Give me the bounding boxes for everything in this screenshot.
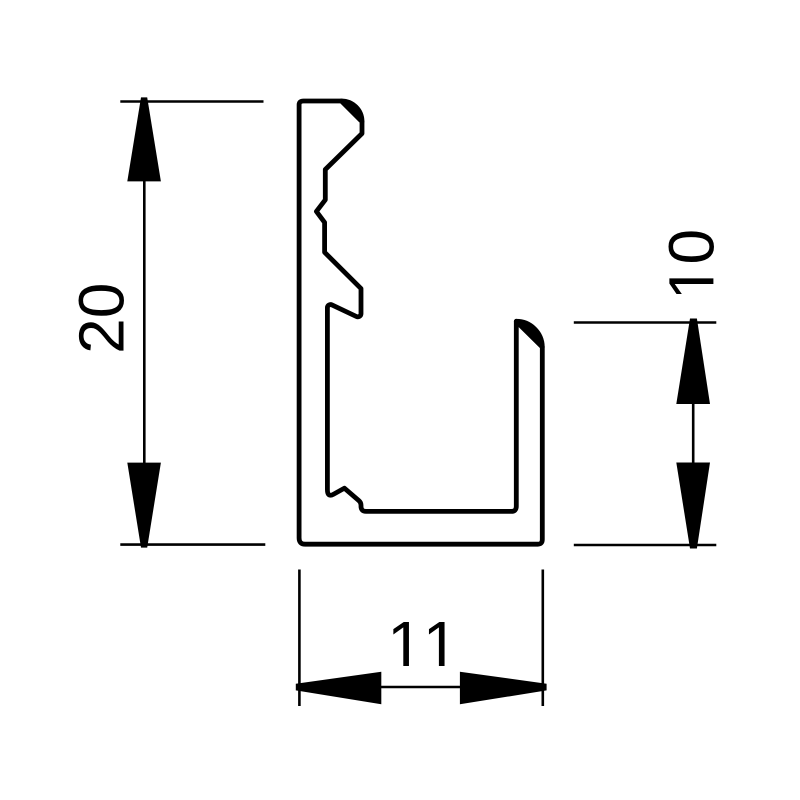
svg-text:20: 20 bbox=[66, 283, 138, 354]
svg-text:0: 0 bbox=[655, 229, 727, 265]
